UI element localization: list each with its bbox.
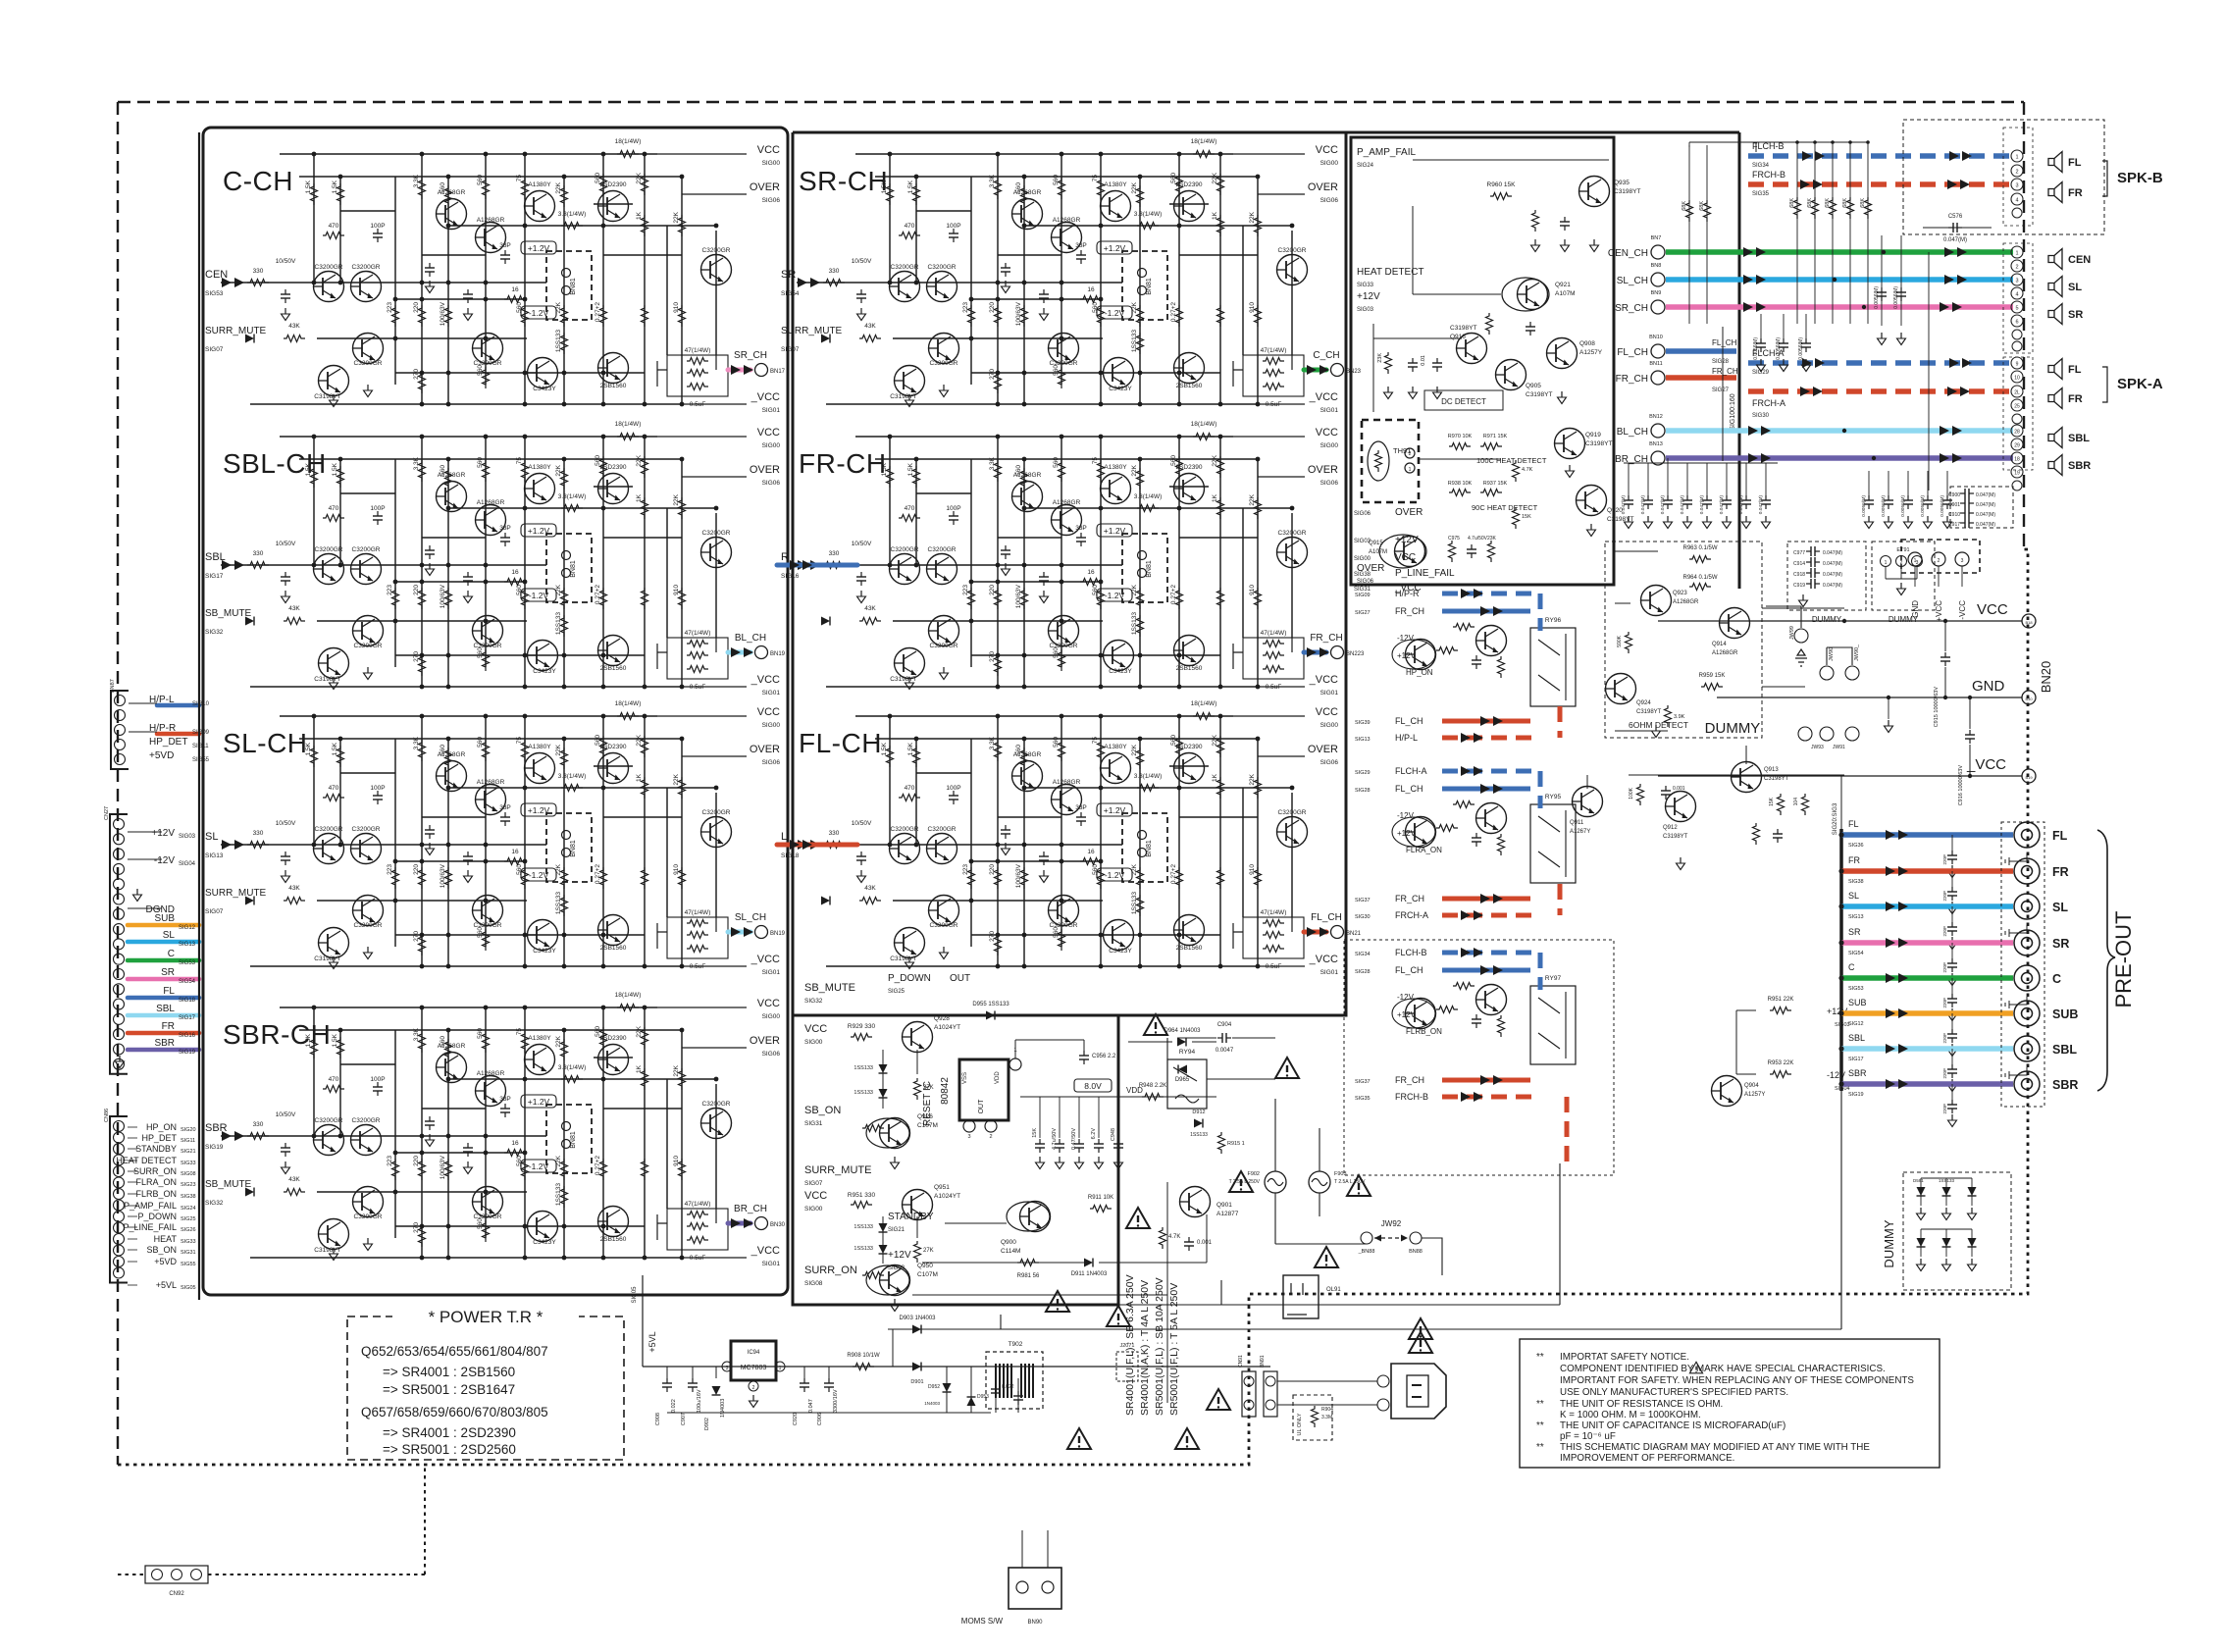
svg-text:P_DOWN: P_DOWN <box>888 973 931 984</box>
svg-text:220P: 220P <box>1942 1068 1947 1079</box>
amplifier channel C-CH <box>205 138 786 414</box>
transistor Q901 A12877 <box>1180 1187 1211 1217</box>
transistor Q908 A1257Y <box>1547 338 1578 369</box>
svg-text:F902: F902 <box>1247 1171 1260 1177</box>
svg-text:27K: 27K <box>923 1248 934 1254</box>
svg-text:FRCH-B: FRCH-B <box>1752 170 1785 180</box>
svg-text:68K: 68K <box>1682 201 1687 211</box>
svg-text:* POWER T.R *: * POWER T.R * <box>429 1308 543 1326</box>
svg-text:1: 1 <box>779 1366 782 1371</box>
vertical colored route (blue) <box>1538 594 1543 990</box>
svg-text:SIG06: SIG06 <box>1320 197 1339 204</box>
svg-text:9: 9 <box>2016 362 2019 368</box>
svg-text:FL_CH: FL_CH <box>1395 965 1423 975</box>
speaker FR (SPK-B) <box>2048 182 2083 203</box>
svg-text:SIG00: SIG00 <box>804 1206 823 1213</box>
svg-text:VCC: VCC <box>804 1190 827 1202</box>
svg-text:SIG19: SIG19 <box>179 1050 196 1056</box>
svg-text:RESET IC: RESET IC <box>922 1081 933 1126</box>
DC detect block <box>1372 324 1374 412</box>
resistor columns R944-R947 (68K) <box>1689 140 1872 324</box>
svg-text:BL_CH: BL_CH <box>735 633 766 644</box>
speaker SL <box>2048 277 2082 297</box>
svg-text:+VCC: +VCC <box>1935 600 1943 622</box>
svg-text:-12V: -12V <box>154 855 175 866</box>
svg-text:SIG32: SIG32 <box>804 998 823 1005</box>
svg-text:BN19: BN19 <box>770 651 786 657</box>
svg-text:FL_CH: FL_CH <box>1311 912 1342 923</box>
svg-text:JW91: JW91 <box>1833 745 1845 750</box>
svg-text:FL: FL <box>1848 819 1859 829</box>
svg-text:D953: D953 <box>977 1394 989 1400</box>
svg-text:R960 15K: R960 15K <box>1487 181 1517 188</box>
svg-text:0.0056(M): 0.0056(M) <box>1798 337 1804 360</box>
svg-text:SIG06: SIG06 <box>1357 579 1374 585</box>
svg-text:A1267Y: A1267Y <box>1570 829 1590 835</box>
svg-text:SL_CH: SL_CH <box>735 912 766 923</box>
svg-text:SIG05: SIG05 <box>632 1286 638 1304</box>
svg-text:1N4003: 1N4003 <box>720 1399 726 1418</box>
svg-text:VCC: VCC <box>757 706 780 718</box>
amplifier channel FL-CH <box>777 700 1362 976</box>
warning triangle (fuse left) <box>1229 1171 1253 1192</box>
svg-text:STANDBY: STANDBY <box>135 1144 177 1154</box>
svg-text:3: 3 <box>726 1366 729 1371</box>
svg-text:C114M: C114M <box>1001 1248 1020 1255</box>
svg-text:SB_ON: SB_ON <box>146 1245 177 1255</box>
svg-text:SIG17: SIG17 <box>205 573 224 580</box>
diodes D934 D935 1SS133 <box>879 1064 888 1073</box>
svg-text:SIG06: SIG06 <box>762 197 781 204</box>
svg-text:SBR: SBR <box>1848 1068 1867 1078</box>
svg-text:SIG00: SIG00 <box>762 1013 781 1020</box>
svg-text:SIG53: SIG53 <box>179 960 196 966</box>
connector J2071 <box>1116 1343 1138 1381</box>
thermistor TH91 dashed box <box>1362 420 1419 502</box>
wire PRE-OUT FR (colored) <box>1838 855 2013 914</box>
svg-text:_VCC: _VCC <box>1309 674 1338 686</box>
relay RY94 <box>1167 1049 1207 1109</box>
amplifier channel SBR-CH <box>205 992 786 1267</box>
PRE-OUT jack block JK97 <box>2001 822 2078 1107</box>
svg-text:FLRA_ON: FLRA_ON <box>135 1177 177 1187</box>
wire FRCH-A speaker bus (red dashed) <box>1748 387 2013 419</box>
svg-text:SIG28: SIG28 <box>1355 969 1371 975</box>
svg-text:+12V: +12V <box>1397 829 1417 838</box>
svg-text:R951 22K: R951 22K <box>1768 997 1794 1003</box>
svg-text:IMPOROVEMENT OF PERFORMANCE.: IMPOROVEMENT OF PERFORMANCE. <box>1560 1453 1734 1464</box>
svg-text:C906: C906 <box>817 1413 823 1425</box>
svg-text:FR: FR <box>1848 855 1860 865</box>
wire SR_CH speaker bus (pink) <box>1615 290 2013 314</box>
svg-text:FL_CH: FL_CH <box>1617 347 1648 358</box>
smoothing capacitors C905/C909 0.022 <box>991 1367 1023 1413</box>
power transformer T902 <box>986 1341 1043 1409</box>
wire FL_CH feed (blue solid) <box>1617 335 1736 365</box>
svg-text:1SS133: 1SS133 <box>854 1065 873 1071</box>
svg-text:FLCH-B: FLCH-B <box>1395 948 1427 957</box>
svg-text:C_CH: C_CH <box>1313 350 1339 361</box>
svg-text:SL: SL <box>205 831 218 843</box>
svg-text:C956 2.2: C956 2.2 <box>1092 1054 1116 1059</box>
svg-text:15K: 15K <box>1032 1128 1038 1138</box>
svg-text:FR: FR <box>162 1021 175 1032</box>
svg-text:R904: R904 <box>1321 1407 1333 1413</box>
svg-text:Q950: Q950 <box>917 1263 933 1269</box>
capacitor C576 0.047 (SPK-B) <box>1923 214 1992 243</box>
svg-text:SIG23: SIG23 <box>181 1182 196 1188</box>
svg-text:SB_MUTE: SB_MUTE <box>205 608 252 619</box>
svg-text:SIG06: SIG06 <box>762 480 781 487</box>
svg-text:SIG11: SIG11 <box>192 744 209 749</box>
svg-text:FR_CH: FR_CH <box>1395 894 1424 903</box>
warning triangle <box>1207 1389 1230 1410</box>
svg-text:0.0056(M): 0.0056(M) <box>1900 495 1906 517</box>
svg-text:BN21: BN21 <box>1346 931 1362 937</box>
transistor Q951 A1024YT <box>903 1190 933 1220</box>
svg-text:SIG24: SIG24 <box>181 1206 196 1212</box>
diode D912 1SS133 <box>1190 1110 1208 1138</box>
svg-text:SR: SR <box>161 967 175 978</box>
svg-text:SL: SL <box>1848 891 1859 901</box>
svg-text:SIG06: SIG06 <box>762 759 781 766</box>
svg-text:OVER: OVER <box>1308 744 1338 755</box>
svg-text:SBL: SBL <box>156 1004 175 1014</box>
svg-text:SR5001(U,F,L) : T 5A L 250V: SR5001(U,F,L) : T 5A L 250V <box>1168 1283 1180 1416</box>
protection circuit panel enclosure <box>1351 137 1614 585</box>
svg-text:C904: C904 <box>1217 1022 1232 1028</box>
svg-text:_BN88: _BN88 <box>1358 1249 1375 1255</box>
wire BL_CH speaker bus (light cyan) <box>1617 414 2013 438</box>
svg-text:SIG34: SIG34 <box>1355 952 1371 957</box>
svg-text:SIG31: SIG31 <box>804 1120 823 1127</box>
svg-text:SIG19: SIG19 <box>205 1144 224 1151</box>
svg-text:Q900: Q900 <box>1001 1239 1016 1246</box>
svg-text:SURR_MUTE: SURR_MUTE <box>205 888 267 899</box>
svg-text:SIG13: SIG13 <box>1848 914 1864 920</box>
svg-text:SIG35: SIG35 <box>1752 191 1770 197</box>
svg-text:100u/16V: 100u/16V <box>697 1389 702 1413</box>
svg-text:SIG01: SIG01 <box>1320 690 1339 697</box>
svg-text:SIG08: SIG08 <box>804 1280 823 1287</box>
svg-text:SIG38: SIG38 <box>181 1194 196 1200</box>
DUMMY connector block ET91 <box>1872 542 1935 624</box>
svg-text:SL: SL <box>2068 282 2082 293</box>
svg-text:C3198YT: C3198YT <box>1585 440 1612 447</box>
svg-text:SIG29: SIG29 <box>1355 770 1371 776</box>
diodes D964 D965 1N4003 <box>1177 1038 1186 1047</box>
svg-text:SIG00: SIG00 <box>1354 556 1371 562</box>
svg-text:FR_CH: FR_CH <box>1395 1075 1424 1085</box>
svg-text:FR_CH: FR_CH <box>1395 606 1424 616</box>
svg-text:SUB: SUB <box>154 913 175 924</box>
svg-text:6: 6 <box>2015 320 2018 326</box>
svg-text:SIG05: SIG05 <box>181 1285 196 1291</box>
svg-text:SIG16: SIG16 <box>179 1033 196 1039</box>
svg-text:R948 2.2K: R948 2.2K <box>1139 1083 1166 1089</box>
svg-text:SIG20: SIG20 <box>181 1127 196 1133</box>
svg-text:R970 10K: R970 10K <box>1448 434 1473 439</box>
svg-text:SIG13: SIG13 <box>1355 737 1371 743</box>
svg-text:1: 1 <box>2015 155 2018 161</box>
svg-text:0.047(M): 0.047(M) <box>1976 522 1995 528</box>
filter capacitor C916 10000/63V <box>1958 697 1975 805</box>
svg-text:B18: B18 <box>2025 620 2033 625</box>
svg-text:OVER: OVER <box>750 744 780 755</box>
svg-text:BN87: BN87 <box>110 679 116 693</box>
svg-text:23K: 23K <box>1487 536 1497 542</box>
POWER T.R note box <box>347 1308 624 1460</box>
svg-text:VCC: VCC <box>757 998 780 1009</box>
svg-text:1N4003: 1N4003 <box>924 1401 940 1406</box>
svg-text:220P: 220P <box>1942 854 1947 865</box>
svg-text:_VCC: _VCC <box>750 954 780 965</box>
svg-text:0.047(M): 0.047(M) <box>1719 495 1725 515</box>
svg-text:H/P-L: H/P-L <box>1395 733 1418 743</box>
vertical fuse ratings text <box>1124 1274 1180 1416</box>
amplifier channel SBL-CH <box>205 421 786 697</box>
svg-text:3: 3 <box>967 1134 970 1140</box>
power control section (SB_ON / SURR_ON) <box>804 973 970 1312</box>
svg-text:C975: C975 <box>1448 536 1460 542</box>
speaker terminal block JK91 <box>2003 243 2033 353</box>
svg-text:SIG53: SIG53 <box>1848 986 1864 992</box>
svg-text:29: 29 <box>2014 443 2020 449</box>
svg-text:SIG38: SIG38 <box>1848 879 1864 885</box>
svg-text:1SS133: 1SS133 <box>1190 1132 1208 1138</box>
svg-text:0.0056(M): 0.0056(M) <box>1893 286 1899 309</box>
relay RY97 SPK-B switch group <box>1344 940 1614 1175</box>
svg-text:=> SR4001 : 2SD2390: => SR4001 : 2SD2390 <box>383 1425 516 1440</box>
transistor Q921 A107M <box>1502 278 1549 311</box>
svg-text:0.047(M): 0.047(M) <box>1943 237 1967 243</box>
safety notice box <box>1520 1339 1940 1468</box>
svg-text:80842: 80842 <box>940 1077 951 1105</box>
capacitor bank C900/C901/C910/C917 <box>1948 487 2013 528</box>
resistor R915 <box>1218 1132 1245 1154</box>
svg-text:FL_CH: FL_CH <box>1395 784 1423 794</box>
svg-text:+5VD: +5VD <box>154 1257 177 1266</box>
svg-text:0.0056(M): 0.0056(M) <box>1920 495 1926 517</box>
6 ohm detect DUMMY block <box>1605 542 1762 738</box>
svg-text:OVER: OVER <box>750 464 780 476</box>
svg-text:STANDBY: STANDBY <box>888 1212 934 1222</box>
svg-text:FLCH-B: FLCH-B <box>1752 141 1785 151</box>
svg-text:Q916: Q916 <box>1450 334 1466 340</box>
svg-text:SB_ON: SB_ON <box>804 1105 841 1116</box>
svg-text:HEAT DETECT: HEAT DETECT <box>1357 267 1424 278</box>
svg-text:A12877: A12877 <box>1216 1211 1239 1217</box>
discrete protection transistors Q911/Q912/Q913 <box>1570 746 1844 870</box>
capacitors C578/C579 0.0056 <box>1874 235 1906 345</box>
svg-text:SIG55: SIG55 <box>181 1262 196 1267</box>
signal bus boundary line SIG100:160 <box>1738 132 1741 589</box>
svg-text:GND: GND <box>1972 678 2005 695</box>
capacitor C907 100u/16V <box>681 1367 702 1425</box>
svg-text:C3198YT: C3198YT <box>1450 325 1476 332</box>
svg-text:Q919: Q919 <box>1585 432 1601 439</box>
SPK-A label <box>2102 367 2163 402</box>
rectifier diodes D952/D953 <box>924 1367 989 1413</box>
svg-text:15K: 15K <box>1522 514 1531 520</box>
svg-text:DUMMY: DUMMY <box>1705 720 1761 737</box>
svg-text:FL-CH: FL-CH <box>799 728 882 758</box>
wire PRE-OUT SBR (colored) <box>1838 1068 2013 1127</box>
svg-text:SURR_MUTE: SURR_MUTE <box>781 326 843 336</box>
svg-text:VCC: VCC <box>804 1023 827 1035</box>
svg-text:SIG33: SIG33 <box>181 1239 196 1245</box>
svg-text:VCC: VCC <box>757 427 780 439</box>
svg-text:SIG06: SIG06 <box>1320 480 1339 487</box>
svg-text:1: 1 <box>1885 560 1888 566</box>
svg-text:+5VL: +5VL <box>647 1331 657 1352</box>
svg-text:CEN: CEN <box>205 269 228 281</box>
+5VL feed wire <box>632 1275 788 1367</box>
wire PRE-OUT FL (colored) <box>1838 819 2013 878</box>
svg-text:UL ONLY: UL ONLY <box>1297 1413 1303 1435</box>
wire CEN_CH speaker bus (green) <box>1608 235 2013 259</box>
svg-text:SIG00: SIG00 <box>762 160 781 167</box>
svg-text:DUMMY: DUMMY <box>1882 1219 1896 1267</box>
transistor Q926 C107M (digital) <box>866 1118 909 1148</box>
relay RY96 headphone switch group <box>1355 589 1576 743</box>
svg-text:SIG21: SIG21 <box>888 1227 906 1233</box>
svg-text:RY95: RY95 <box>1545 794 1562 800</box>
svg-text:BN13: BN13 <box>1649 441 1663 447</box>
capacitor / resistor columns below buses <box>1621 458 1952 529</box>
speaker terminal block JK92 SPK-A <box>2003 357 2033 490</box>
svg-text:SIG00: SIG00 <box>1320 442 1339 449</box>
svg-text:BN91: BN91 <box>1260 1355 1266 1368</box>
svg-text:68K: 68K <box>1860 198 1866 208</box>
svg-text:SIG01: SIG01 <box>762 1261 781 1267</box>
svg-text:2: 2 <box>2015 170 2018 176</box>
warning triangle <box>1046 1291 1069 1312</box>
svg-text:Q904: Q904 <box>1744 1083 1759 1089</box>
svg-text:68K: 68K <box>1807 198 1813 208</box>
svg-text:SB_MUTE: SB_MUTE <box>205 1179 252 1190</box>
svg-text:0.047(M): 0.047(M) <box>1976 512 1995 518</box>
speaker FL (SPK-B) <box>2048 152 2082 173</box>
VDD regulator network (8.0V) <box>1020 1028 1216 1169</box>
svg-text:Q911: Q911 <box>1570 820 1584 826</box>
svg-text:VCC: VCC <box>1977 601 2008 618</box>
svg-text:FLRB_ON: FLRB_ON <box>1406 1027 1442 1036</box>
svg-text:C915 10000/63V: C915 10000/63V <box>1934 687 1940 728</box>
svg-text:220P: 220P <box>1942 998 1947 1008</box>
svg-text:SL: SL <box>163 930 176 941</box>
svg-text:VCC: VCC <box>1395 552 1416 563</box>
svg-text:FR-CH: FR-CH <box>799 448 887 479</box>
svg-text:**: ** <box>1536 1352 1544 1363</box>
wire PRE-OUT SUB (colored) <box>1838 998 2013 1057</box>
svg-text:SIG31: SIG31 <box>181 1250 196 1256</box>
svg-text:JW99: JW99 <box>1789 626 1795 640</box>
wire FR_CH feed (red solid) <box>1616 361 1738 393</box>
svg-text:+12V: +12V <box>1357 291 1380 302</box>
voltage regulator IC94 MC7803 <box>722 1341 785 1408</box>
svg-text:B40: B40 <box>2025 697 2033 701</box>
svg-text:FR: FR <box>2068 393 2083 405</box>
warning triangle <box>1107 1306 1130 1326</box>
svg-text:A1024YT: A1024YT <box>934 1024 960 1031</box>
svg-text:SIG07: SIG07 <box>781 346 800 353</box>
wire power routing <box>1167 1038 1442 1275</box>
svg-text:_VCC: _VCC <box>750 674 780 686</box>
diode D902 1N4003 <box>704 1367 726 1430</box>
svg-text:220P: 220P <box>1942 962 1947 973</box>
svg-text:2: 2 <box>989 1134 992 1140</box>
svg-text:SIG28: SIG28 <box>1355 788 1371 794</box>
svg-text:SIG10: SIG10 <box>192 701 210 707</box>
main low-voltage rail <box>643 1366 1270 1368</box>
svg-text:SIG13: SIG13 <box>205 852 224 859</box>
warning triangle <box>1409 1332 1432 1353</box>
svg-text:Q935: Q935 <box>1614 180 1630 186</box>
svg-text:SIG27: SIG27 <box>1355 610 1371 616</box>
pre-out bus origin line <box>1839 829 1843 1091</box>
svg-text:BN10: BN10 <box>1649 335 1663 340</box>
svg-text:SIG39: SIG39 <box>1355 720 1371 726</box>
svg-text:HP_ON: HP_ON <box>146 1122 177 1132</box>
svg-text:BN23: BN23 <box>1346 369 1362 375</box>
svg-text:SIG17: SIG17 <box>1848 1057 1864 1062</box>
svg-text:SIG19: SIG19 <box>1848 1092 1864 1098</box>
svg-text:SR5001(U,F,L) : SB 10A 250V: SR5001(U,F,L) : SB 10A 250V <box>1154 1277 1165 1416</box>
secondary supply rail <box>667 1412 991 1414</box>
relay RY95 SPK-A switch group <box>1355 766 1576 920</box>
svg-text:**: ** <box>1536 1442 1544 1453</box>
fuse F902 T2.5A 250V <box>1229 1171 1286 1193</box>
resistor R960 15K <box>1490 193 1512 200</box>
svg-text:FLCH-A: FLCH-A <box>1395 766 1427 776</box>
svg-text:-12V: -12V <box>1397 634 1415 643</box>
svg-text:BN88: BN88 <box>1409 1249 1423 1255</box>
capacitor C904 0.0047 <box>1177 1022 1275 1054</box>
wire PRE-OUT SR (colored) <box>1838 927 2013 986</box>
svg-text:SIG28: SIG28 <box>1712 359 1730 365</box>
svg-text:JW92: JW92 <box>1381 1219 1402 1228</box>
svg-text:SIG53: SIG53 <box>205 290 224 297</box>
svg-text:RY97: RY97 <box>1545 975 1562 982</box>
svg-text:Q901: Q901 <box>1216 1202 1232 1209</box>
svg-text:SIG54: SIG54 <box>781 290 800 297</box>
svg-text:BN19: BN19 <box>770 931 786 937</box>
svg-text:SPK-B: SPK-B <box>2117 170 2163 186</box>
svg-text:0.001: 0.001 <box>1197 1240 1213 1246</box>
svg-text:HEAT: HEAT <box>154 1234 178 1244</box>
svg-text:P_AMP_FAIL: P_AMP_FAIL <box>1357 147 1416 158</box>
svg-text:0.047(M): 0.047(M) <box>1699 495 1705 515</box>
svg-text:SIG01: SIG01 <box>762 969 781 976</box>
DUMMY diode block (bottom right) <box>1882 1172 2011 1290</box>
svg-text:GND: GND <box>1911 600 1920 618</box>
svg-text:SIG35: SIG35 <box>1355 1096 1371 1102</box>
svg-text:3.3M: 3.3M <box>1321 1415 1332 1420</box>
svg-text:USE ONLY MANUFACTURER'S SPECIF: USE ONLY MANUFACTURER'S SPECIFIED PARTS. <box>1560 1387 1788 1398</box>
svg-text:0.0056(M): 0.0056(M) <box>1776 337 1782 360</box>
svg-text:0.047(M): 0.047(M) <box>1660 495 1666 515</box>
svg-text:0.0056(M): 0.0056(M) <box>1861 495 1867 517</box>
svg-text:PRE-OUT: PRE-OUT <box>2111 911 2136 1008</box>
svg-text:4.7u/50V: 4.7u/50V <box>1468 536 1488 542</box>
svg-text:JW93: JW93 <box>1811 745 1824 750</box>
svg-text:A107M: A107M <box>1555 290 1576 297</box>
svg-text:SIG03: SIG03 <box>888 1265 906 1271</box>
connector CN87 (headphone) <box>110 679 210 769</box>
svg-text:220P: 220P <box>1942 891 1947 902</box>
svg-text:D903 1N4003: D903 1N4003 <box>899 1316 936 1321</box>
